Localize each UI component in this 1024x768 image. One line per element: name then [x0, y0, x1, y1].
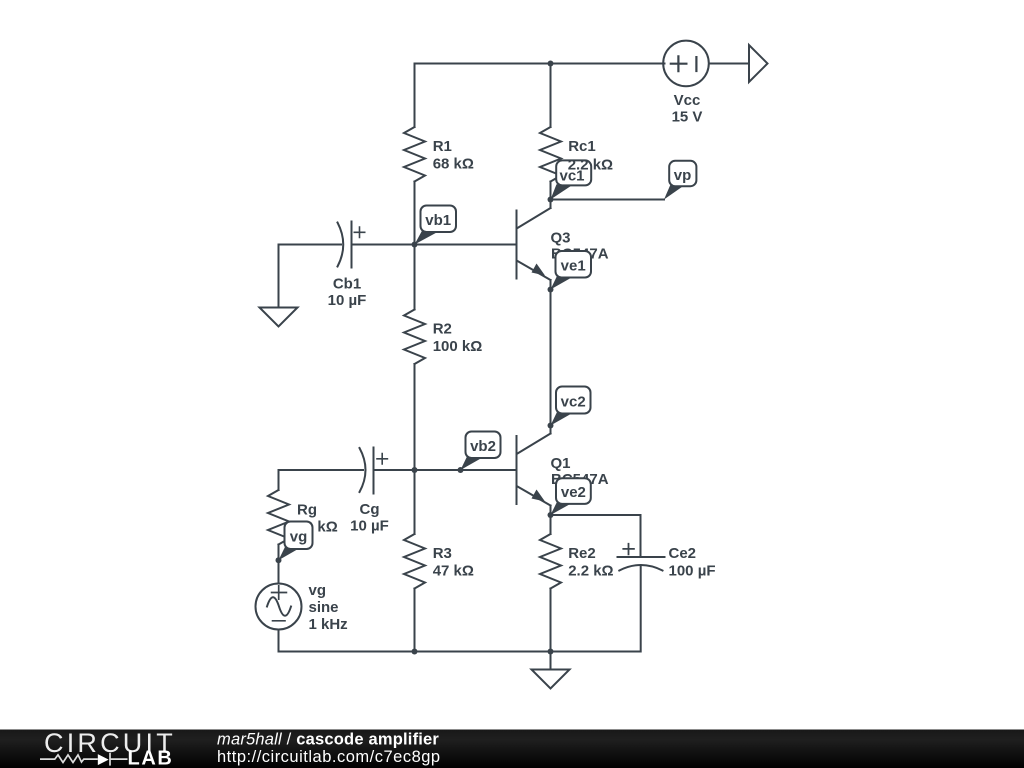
resistor R2 — [404, 310, 425, 365]
junction dot vg anchor — [276, 557, 282, 563]
svg-text:10 µF: 10 µF — [328, 292, 367, 309]
transistor Q1 — [516, 436, 518, 504]
wire Re2 top lead — [550, 515, 552, 534]
wire Rg to vg — [278, 545, 280, 584]
svg-text:100 µF: 100 µF — [669, 563, 716, 580]
wire top rail — [415, 63, 665, 65]
junction dot vc1 — [548, 197, 554, 203]
junction dot vc2 — [548, 423, 554, 429]
node flag ve2 — [551, 502, 573, 515]
transistor Q1 emitter arrow — [532, 490, 546, 502]
resistor Re2 — [540, 534, 561, 589]
resistor R1 — [404, 127, 425, 182]
wire Rc1 bottom lead — [550, 182, 552, 200]
wire vb2 row right — [374, 469, 517, 471]
svg-text:2.2 kΩ: 2.2 kΩ — [568, 563, 613, 580]
wire R2 bottom lead — [414, 364, 416, 470]
wire bottom rail — [279, 651, 641, 653]
voltage source Vcc — [663, 41, 709, 87]
wire vb1 row left — [279, 244, 342, 246]
wire Re2 bottom lead — [550, 589, 552, 652]
svg-text:Rg: Rg — [297, 501, 317, 518]
wire R1 top lead — [414, 64, 416, 128]
node vp arrow — [749, 45, 768, 82]
capacitor Cb1 — [338, 223, 344, 267]
node flag vb1 — [415, 231, 439, 245]
resistor R3 — [404, 534, 425, 589]
svg-text:mar5hall / cascode amplifier: mar5hall / cascode amplifier — [217, 730, 439, 748]
svg-text:Cg: Cg — [360, 501, 380, 518]
svg-text:http://circuitlab.com/c7ec8gp: http://circuitlab.com/c7ec8gp — [217, 748, 441, 766]
junction dot bottom rail Re2 — [548, 649, 554, 655]
ground left — [260, 308, 298, 327]
node flag vc1 — [551, 184, 573, 199]
svg-text:R3: R3 — [433, 545, 452, 562]
svg-text:68 kΩ: 68 kΩ — [433, 156, 474, 173]
wire Rg top lead — [278, 470, 280, 490]
node flag ve1 — [551, 276, 573, 290]
node flag vb2 — [461, 457, 483, 471]
wire R1 bottom lead — [414, 182, 416, 245]
svg-text:10 µF: 10 µF — [350, 517, 389, 534]
svg-text:47 kΩ: 47 kΩ — [433, 563, 474, 580]
junction dot vb1 — [412, 242, 418, 248]
wire vc1 to vp — [551, 199, 665, 201]
junction dot ve2 — [548, 512, 554, 518]
svg-text:vc2: vc2 — [561, 394, 586, 411]
svg-text:LAB: LAB — [128, 747, 174, 768]
wire Cb1 ground stub — [278, 245, 280, 308]
svg-text:2.2 kΩ: 2.2 kΩ — [568, 157, 613, 174]
wire R2 top lead — [414, 245, 416, 310]
junction dot vb2 anchor — [458, 467, 464, 473]
junction dot bottom rail R3 — [412, 649, 418, 655]
voltage source vg — [256, 584, 302, 630]
svg-text:15 V: 15 V — [672, 109, 703, 126]
wire Rc1 top lead — [550, 64, 552, 128]
svg-text:Rc1: Rc1 — [568, 138, 596, 155]
svg-text:sine: sine — [309, 599, 339, 616]
wire ve2 to Ce2 — [551, 515, 641, 556]
wire vb2 row left — [279, 469, 364, 471]
resistor Rc1 — [540, 127, 561, 182]
svg-text:vp: vp — [674, 167, 692, 184]
capacitor Cg — [360, 448, 366, 492]
svg-text:Q1: Q1 — [551, 455, 571, 472]
svg-text:ve2: ve2 — [561, 484, 586, 501]
svg-text:Vcc: Vcc — [674, 92, 701, 109]
svg-text:vg: vg — [290, 529, 308, 546]
wire ve1 to vc2 — [550, 290, 552, 426]
wire R3 bottom lead — [414, 589, 416, 652]
svg-text:R2: R2 — [433, 321, 452, 338]
junction dot top rail — [548, 61, 554, 67]
svg-text:ve1: ve1 — [561, 258, 586, 275]
junction dot ve1 — [548, 287, 554, 293]
wire Vcc to arrow — [710, 63, 750, 65]
node flag vp — [664, 185, 684, 200]
svg-text:Q3: Q3 — [551, 230, 571, 247]
logo resistor-diode art — [40, 753, 128, 766]
svg-text:vg: vg — [309, 582, 327, 599]
ground bottom — [532, 670, 570, 689]
svg-text:Re2: Re2 — [568, 545, 596, 562]
svg-text:Ce2: Ce2 — [669, 545, 697, 562]
wire vb1 row right — [352, 244, 517, 246]
node flag vg — [279, 547, 301, 560]
capacitor Ce2 — [618, 556, 665, 558]
wire vg bottom lead — [278, 630, 280, 652]
resistor Rg — [268, 490, 289, 545]
wire Ce2 bottom lead — [640, 566, 642, 652]
svg-text:100 kΩ: 100 kΩ — [433, 338, 483, 355]
transistor Q3 — [516, 211, 518, 279]
node flag vc2 — [551, 412, 573, 426]
svg-text:1 kHz: 1 kHz — [309, 616, 348, 633]
svg-text:vb1: vb1 — [425, 212, 451, 229]
svg-text:vb2: vb2 — [470, 438, 496, 455]
junction dot R column vb2 row — [412, 467, 418, 473]
transistor Q3 emitter arrow — [532, 264, 546, 276]
wire ground stub bottom — [550, 652, 552, 670]
wire R3 top lead — [414, 470, 416, 534]
svg-text:Cb1: Cb1 — [333, 275, 361, 292]
svg-text:R1: R1 — [433, 138, 452, 155]
